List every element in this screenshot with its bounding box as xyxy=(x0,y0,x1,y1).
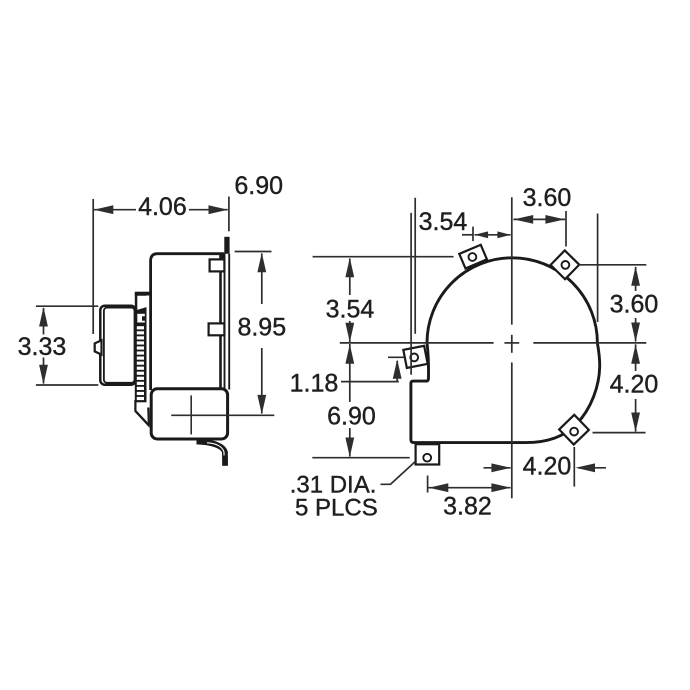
svg-text:4.20: 4.20 xyxy=(610,371,659,399)
body top right corner step xyxy=(220,253,225,260)
blower scroll outline (front view) xyxy=(411,258,600,443)
svg-text:8.95: 8.95 xyxy=(237,314,286,342)
svg-text:3.60: 3.60 xyxy=(523,184,572,212)
dim 1.18 leader and arrow xyxy=(341,381,399,383)
dim 4.06 extension left xyxy=(92,199,94,334)
dim 8.95 extension top xyxy=(235,251,272,253)
mounting tab top-left with hole xyxy=(459,245,487,269)
extension line housing left edge xyxy=(410,213,412,375)
flange tab upper xyxy=(210,259,225,271)
mounting flange plate top xyxy=(224,237,229,254)
svg-text:4.06: 4.06 xyxy=(138,193,187,221)
svg-text:6.90: 6.90 xyxy=(234,172,283,200)
flange tab middle xyxy=(209,323,225,335)
motor end cap seam xyxy=(104,308,135,383)
blower housing body (side view) xyxy=(151,254,225,390)
dim 4.06 line xyxy=(94,209,136,211)
motor shaft end xyxy=(95,340,102,354)
extension line top-right tab vertical xyxy=(565,211,567,247)
extension line bottom-right tab horizontal xyxy=(593,432,646,434)
extension line circle right edge xyxy=(597,214,599,323)
svg-text:3.82: 3.82 xyxy=(443,492,492,520)
dim 3.33 line xyxy=(43,308,45,335)
dim 4.20 right line xyxy=(635,344,637,371)
dim 3.82 line xyxy=(429,487,511,489)
power cable xyxy=(197,442,226,466)
svg-text:3.60: 3.60 xyxy=(610,291,659,319)
dim 3.33 extension bottom xyxy=(36,384,98,386)
dim 3.82 tick xyxy=(427,476,429,493)
svg-text:3.54: 3.54 xyxy=(326,296,375,324)
horizontal centerline xyxy=(340,342,494,344)
extension line left tab hole vertical xyxy=(414,198,416,334)
junction box xyxy=(151,389,227,439)
svg-text:6.90: 6.90 xyxy=(327,403,376,431)
dim 3.54 top line xyxy=(462,234,473,236)
dim 3.54 left line xyxy=(349,259,351,296)
mounting tab top-right with hole xyxy=(551,250,580,279)
dim 8.95 line xyxy=(261,254,263,305)
mounting flange plate lines xyxy=(224,254,226,390)
dim 4.20 bottom line xyxy=(484,467,511,469)
vertical centerline xyxy=(511,197,513,324)
svg-text:3.54: 3.54 xyxy=(419,208,468,236)
mounting tab bottom-left with hole xyxy=(416,444,440,464)
svg-text:3.33: 3.33 xyxy=(18,333,67,361)
mounting tab left with hole xyxy=(403,346,427,368)
dim 3.33 extension top xyxy=(36,305,98,307)
junction box center mark xyxy=(190,395,192,434)
dim 3.60 right line xyxy=(635,267,637,291)
motor body (side view) xyxy=(100,306,135,385)
dim 6.90 left line xyxy=(349,344,351,402)
mounting tab bottom-right with hole xyxy=(559,415,589,445)
extension line top-left tab hole horizontal xyxy=(313,256,454,258)
svg-text:5 PLCS: 5 PLCS xyxy=(295,495,378,522)
housing right edge xyxy=(219,254,222,390)
dim 3.60 top line xyxy=(513,218,565,220)
dim 6.90 extension line xyxy=(228,197,230,232)
dim 3.54 top tick xyxy=(472,227,474,242)
extension line bottom-right tab vertical xyxy=(573,447,575,487)
svg-text:4.20: 4.20 xyxy=(523,453,572,481)
vent bracket with louvers xyxy=(134,292,151,428)
leader line to bottom-left tab xyxy=(381,462,415,484)
svg-text:1.18: 1.18 xyxy=(290,370,339,398)
extension line top-right tab hole horizontal xyxy=(579,264,647,266)
extension line bottom-left tab horizontal xyxy=(312,457,409,459)
